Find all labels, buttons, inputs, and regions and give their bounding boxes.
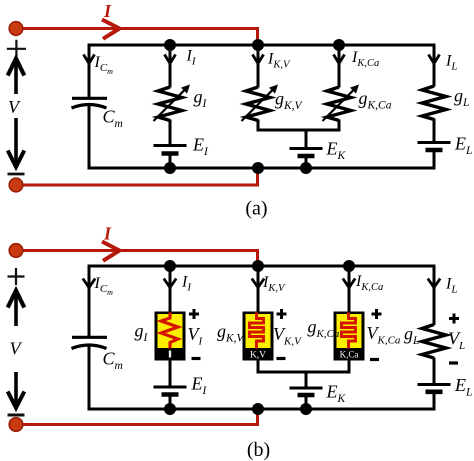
node: gKCa top (a) — [333, 39, 345, 51]
svg-text:gI: gI — [194, 87, 208, 111]
resistor gKV (a) — [246, 87, 270, 121]
svg-text:gK,Ca: gK,Ca — [359, 88, 392, 112]
wire: red bottom lead (a) — [16, 168, 258, 185]
current arrow I_KV (b) — [252, 279, 264, 288]
svg-text:V: V — [10, 339, 23, 359]
wire: top rail (b) — [88, 265, 436, 268]
svg-text:V: V — [8, 97, 21, 117]
V source down arrow (b) — [14, 372, 18, 405]
svg-text:EL: EL — [454, 134, 472, 158]
current arrow I_I (b) — [164, 279, 176, 288]
svg-text:IK,V: IK,V — [267, 51, 291, 71]
terminal plus (b) — [8, 268, 25, 285]
svg-text:Cm: Cm — [103, 107, 123, 131]
svg-text:gL: gL — [404, 324, 419, 348]
svg-text:gL: gL — [454, 86, 469, 110]
current arrow I_L (b) — [428, 279, 440, 288]
wire: EK stem upper (a) — [305, 130, 308, 148]
node: gI top (b) — [164, 260, 176, 272]
svg-text:IK,Ca: IK,Ca — [351, 49, 379, 69]
svg-text:IL: IL — [445, 276, 457, 296]
plus V_KV (b) — [277, 309, 287, 319]
svg-text:IK,Ca: IK,Ca — [355, 273, 383, 293]
current arrow I_L (a) — [429, 55, 440, 64]
current arrow I (b) — [102, 242, 120, 261]
wire: Cm branch upper (a) — [88, 44, 91, 99]
wire: gKCa branch upper (b) — [348, 266, 351, 315]
svg-text:VI: VI — [188, 324, 204, 348]
wire: gKCa branch upper (a) — [338, 45, 341, 88]
node: EK bottom (a) — [300, 162, 312, 174]
svg-text:EK: EK — [326, 139, 347, 163]
wire: gKV to EK joint (b) — [257, 361, 260, 374]
wire: bottom rail (b) — [88, 408, 436, 411]
wire: EK joining bar (b) — [257, 371, 351, 374]
wire: bottom rail (a) — [88, 167, 436, 170]
svg-text:ICm: ICm — [94, 54, 114, 76]
memristor gKCa box (b) — [334, 312, 365, 361]
svg-text:K,V: K,V — [250, 351, 266, 361]
svg-text:II: II — [181, 274, 192, 294]
battery EI (b) — [154, 386, 187, 389]
svg-text:EL: EL — [454, 375, 472, 399]
wire: red top lead (a) — [16, 29, 258, 46]
terminal minus (a) — [8, 173, 25, 176]
battery EK (b) — [290, 387, 323, 390]
memristor gKV box (b) — [243, 312, 274, 361]
svg-text:EK: EK — [326, 382, 347, 406]
svg-text:IL: IL — [445, 53, 457, 73]
wire: gKV branch upper (a) — [257, 45, 260, 88]
wire: gKV branch upper (b) — [257, 266, 260, 315]
wire: gI branch lower (a) — [169, 155, 172, 168]
minus V_KCa (b) — [370, 358, 379, 361]
memristor gKCa red meander (b) — [342, 313, 356, 349]
wire: gL battery link (b) — [433, 358, 436, 384]
battery EL (b) — [418, 383, 451, 386]
resistor gL (a) — [422, 86, 446, 120]
current arrow I_Cm (a) — [84, 55, 95, 64]
terminal dot top (b) — [9, 244, 23, 258]
svg-text:Cm: Cm — [103, 349, 123, 373]
minus V_I (b) — [192, 357, 201, 360]
wire: gL branch upper (b) — [433, 265, 436, 326]
wire: gKCa to EK joint (a) — [338, 120, 341, 132]
V source down arrow (a) — [14, 118, 18, 164]
capacitor Cm (b) — [72, 336, 107, 339]
battery EK (a) — [290, 147, 323, 150]
V source up arrow (b) — [14, 292, 18, 326]
resistor gI (a) — [158, 87, 182, 121]
svg-text:VL: VL — [448, 329, 465, 353]
current arrow I (a) — [102, 20, 120, 39]
node: gI top (a) — [164, 39, 176, 51]
current arrow I_KV (a) — [253, 55, 264, 64]
wire: red top lead (b) — [16, 251, 258, 267]
plus V_I (b) — [189, 309, 199, 319]
svg-text:VK,Ca: VK,Ca — [367, 323, 401, 347]
wire: gL branch upper (a) — [433, 44, 436, 87]
wire: gI branch lower (b) — [169, 396, 172, 411]
terminal dot bottom (a) — [9, 178, 23, 192]
current arrow I_I (a) — [165, 55, 176, 64]
svg-text:IK,V: IK,V — [262, 274, 286, 294]
battery EL (a) — [418, 141, 451, 144]
node: red link bottom (a) — [252, 162, 264, 174]
terminal dot top (a) — [9, 22, 23, 36]
resistor gKCa (a) — [327, 87, 351, 121]
wire: EK stem upper (b) — [305, 372, 308, 387]
node: EK bottom (b) — [300, 403, 312, 415]
battery EI (a) — [154, 144, 187, 147]
node: gI bottom (a) — [164, 162, 176, 174]
wire: Cm branch lower (a) — [88, 105, 91, 170]
terminal plus (a) — [7, 40, 26, 58]
svg-text:(b): (b) — [247, 439, 270, 461]
capacitor Cm (a) — [72, 97, 107, 100]
svg-text:gK,V: gK,V — [217, 321, 246, 345]
node: gKV top (a) — [252, 39, 264, 51]
wire: gI branch upper (a) — [169, 45, 172, 88]
wire: EK stem lower (b) — [305, 397, 308, 410]
wire: gL branch lower (a) — [433, 152, 436, 170]
svg-text:(a): (a) — [245, 198, 267, 220]
current arrow I_KCa (a) — [334, 55, 345, 64]
current arrow I_KCa (b) — [343, 279, 355, 288]
wire: gI battery link (a) — [169, 120, 172, 146]
resistor gL (b) — [422, 325, 446, 359]
memristor gI red zigzag (b) — [161, 313, 178, 349]
wire: gL battery link (a) — [433, 119, 436, 143]
memristor gKV red meander (b) — [250, 313, 264, 349]
wire: EK stem lower (a) — [305, 158, 308, 168]
plus V_L (b) — [449, 314, 459, 324]
wire: gI battery link (b) — [169, 361, 172, 387]
wire: gKCa to EK joint (b) — [348, 361, 351, 374]
svg-text:I: I — [103, 1, 112, 21]
svg-text:II: II — [186, 48, 197, 68]
node: gKCa top (b) — [343, 260, 355, 272]
svg-text:VK,V: VK,V — [273, 324, 302, 348]
minus V_KV (b) — [277, 357, 286, 360]
wire: top rail (a) — [88, 44, 436, 47]
wire: Cm branch lower (b) — [88, 345, 91, 411]
node: gKV top (b) — [252, 260, 264, 272]
svg-text:gI: gI — [135, 321, 149, 345]
svg-text:K,Ca: K,Ca — [340, 350, 359, 360]
svg-text:EI: EI — [192, 135, 209, 159]
node: red link bottom (b) — [252, 403, 264, 415]
svg-text:I: I — [103, 224, 112, 244]
memristor gI box (b) — [155, 312, 186, 361]
terminal dot bottom (b) — [9, 418, 23, 432]
wire: gL branch lower (b) — [433, 394, 436, 411]
wire: gKV to EK joint (a) — [257, 120, 260, 132]
wire: gI branch upper (b) — [169, 266, 172, 315]
svg-text:ICm: ICm — [94, 275, 114, 297]
V source up arrow (a) — [14, 60, 18, 94]
minus V_L (b) — [449, 361, 458, 364]
node: gI bottom (b) — [164, 403, 176, 415]
memristor gI band label (b) — [169, 351, 171, 358]
current arrow I_Cm (b) — [83, 279, 95, 288]
wire: Cm branch upper (b) — [88, 265, 91, 338]
wire: red bottom lead (b) — [16, 408, 258, 425]
svg-text:gK,V: gK,V — [275, 89, 304, 113]
plus V_KCa (b) — [372, 309, 382, 319]
svg-text:EI: EI — [191, 374, 208, 398]
wire: EK joining bar (a) — [257, 129, 341, 132]
terminal minus (b) — [8, 414, 25, 417]
